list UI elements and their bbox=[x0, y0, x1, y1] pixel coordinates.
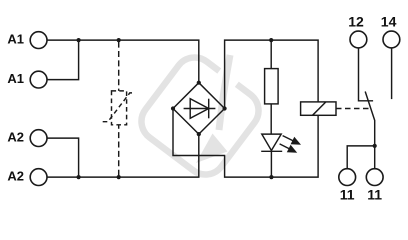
wire bridge left corner to relay coil bottom (DC-) bbox=[173, 109, 318, 178]
node junction A1 rail / A1 second bbox=[77, 38, 81, 42]
wire terminal 12 to NC contact (with foot) bbox=[359, 48, 374, 101]
svg-text:14: 14 bbox=[381, 13, 397, 29]
terminal A1 (top) bbox=[30, 32, 47, 49]
terminal 12 bbox=[350, 31, 367, 48]
wire A2 third to rail bbox=[47, 138, 78, 177]
wire A1 second to rail bbox=[47, 40, 78, 80]
wire common to terminal 11 left bbox=[347, 146, 375, 169]
svg-text:A1: A1 bbox=[7, 71, 24, 86]
terminal 11 (right) bbox=[366, 169, 383, 186]
svg-text:A1: A1 bbox=[7, 32, 24, 47]
relay coil K1 bbox=[301, 102, 336, 115]
node junction A1 rail / varistor branch bbox=[117, 38, 121, 42]
svg-text:11: 11 bbox=[367, 187, 382, 203]
node junction DC+ rail / resistor branch bbox=[269, 38, 273, 42]
wire varistor branch (dashed) bbox=[118, 42, 120, 176]
node junction common / terminals 11 bbox=[373, 144, 377, 148]
node junction A2 rail / varistor branch bbox=[117, 175, 121, 179]
resistor bbox=[265, 69, 279, 104]
varistor (dashed, optional) bbox=[103, 91, 135, 125]
terminal A2 (third) bbox=[30, 130, 47, 147]
wire A1 rail to bridge top bbox=[47, 40, 199, 83]
svg-text:12: 12 bbox=[348, 13, 364, 29]
terminal A1 (second) bbox=[30, 71, 47, 88]
node bridge left corner bbox=[171, 106, 175, 110]
terminal A2 (bottom) bbox=[30, 169, 47, 186]
node bridge top corner bbox=[197, 81, 201, 85]
changeover contact lever bbox=[365, 92, 375, 146]
LED bbox=[261, 134, 301, 153]
terminal 11 (left) bbox=[339, 169, 356, 186]
wire terminal 14 to NO contact bbox=[391, 48, 393, 99]
node junction bottom rail / LED branch bbox=[269, 175, 273, 179]
node junction A2 rail / A2 third bbox=[77, 175, 81, 179]
wire resistor branch top bbox=[270, 40, 272, 69]
svg-text:A2: A2 bbox=[7, 169, 24, 184]
bridge rectifier bbox=[173, 83, 225, 134]
node bridge bottom corner bbox=[197, 132, 201, 136]
wire LED to bottom rail bbox=[270, 151, 272, 177]
wire resistor to LED bbox=[270, 104, 272, 134]
mechanical link (dashed) coil to contact bbox=[336, 108, 370, 110]
wire common to terminal 11 right bbox=[374, 146, 376, 169]
terminal 14 bbox=[383, 31, 400, 48]
svg-text:11: 11 bbox=[340, 187, 355, 203]
wire bridge bottom corner to A2 rail bbox=[47, 134, 199, 177]
wire bridge right corner to relay coil top (DC+) bbox=[225, 40, 319, 108]
node bridge right corner bbox=[223, 106, 227, 110]
svg-text:A2: A2 bbox=[7, 130, 24, 145]
